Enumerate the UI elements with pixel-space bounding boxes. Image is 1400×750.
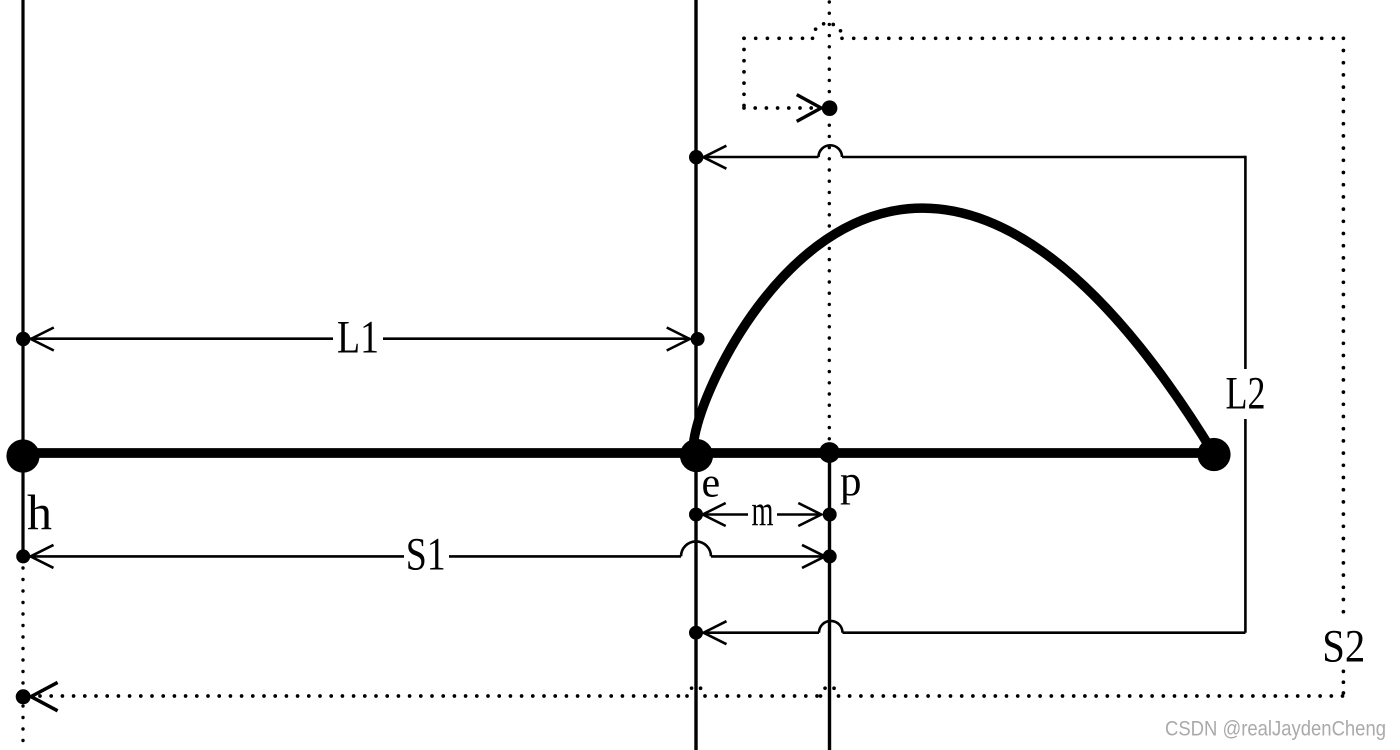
- m label background: [748, 501, 777, 528]
- L2 bracket top arrowhead: [703, 146, 726, 169]
- svg-text:e: e: [702, 461, 721, 507]
- svg-text:m: m: [752, 486, 774, 535]
- S2 dotted hop over dotted vertical: [813, 23, 843, 38]
- left vertical axis line (h) solid part: [21, 0, 24, 556]
- p vertical axis line solid lower part: [828, 450, 831, 750]
- p vertical dotted upper part: [828, 2, 831, 448]
- point p: [819, 442, 840, 463]
- S1 hop over e line: [681, 541, 711, 556]
- point h: [6, 439, 39, 472]
- L2 bracket right vertical line: [1244, 156, 1247, 633]
- svg-text:p: p: [840, 458, 862, 505]
- dimension m line: [703, 513, 821, 516]
- L2 bracket bottom line: [704, 631, 820, 634]
- landing end point: [1197, 438, 1230, 471]
- dimension S1 line: [29, 555, 681, 558]
- L1 left endpoint dot: [16, 332, 30, 346]
- svg-text:S2: S2: [1322, 620, 1365, 672]
- L2 bracket top hop over dotted vertical: [819, 145, 843, 157]
- L1 left arrowhead: [31, 328, 54, 351]
- left vertical axis dotted continuation: [21, 568, 24, 750]
- dimension L1 line: [29, 337, 690, 340]
- trajectory curve from e to landing point: [693, 208, 1214, 454]
- S1 right arrowhead: [802, 545, 825, 568]
- L2 bracket bottom hop over p line: [819, 621, 843, 633]
- S2 bottom dotted hop over e line: [687, 687, 705, 696]
- S1 left endpoint dot: [16, 549, 30, 563]
- svg-text:S1: S1: [406, 529, 446, 581]
- S2 dotted arrow line to start point: [744, 106, 812, 110]
- m right endpoint dot: [823, 508, 837, 522]
- svg-text:CSDN @realJaydenCheng: CSDN @realJaydenCheng: [1165, 718, 1386, 741]
- S2 dotted right vertical line: [1342, 38, 1346, 614]
- S1 label background: [404, 538, 449, 574]
- e vertical axis line: [694, 0, 697, 750]
- S2 label background: [1320, 618, 1367, 668]
- S2 dotted left vertical segment: [742, 38, 746, 108]
- svg-text:L2: L2: [1226, 367, 1266, 419]
- L2 bracket top endpoint dot: [689, 150, 703, 164]
- S2 start point dot: [822, 100, 838, 116]
- L1 right arrowhead: [667, 328, 690, 351]
- m left arrowhead: [703, 503, 726, 526]
- main thick ground line: [23, 448, 1214, 458]
- S2 start arrowhead: [797, 95, 822, 122]
- S2 dotted bottom horizontal line: [40, 694, 687, 698]
- S2 bottom endpoint dot: [16, 689, 31, 704]
- S2 dotted top horizontal line: [744, 36, 813, 40]
- S2 bottom dotted hop over p line: [821, 687, 839, 696]
- L2 bracket top line: [703, 156, 818, 159]
- m right arrowhead: [798, 503, 821, 526]
- L1 label background: [333, 320, 383, 357]
- m left endpoint dot: [689, 508, 703, 522]
- S1 right endpoint dot: [823, 549, 837, 563]
- point e: [680, 439, 713, 472]
- svg-text:h: h: [27, 484, 52, 540]
- L2 bracket bottom endpoint dot: [689, 626, 703, 640]
- svg-text:L1: L1: [337, 312, 379, 364]
- L2 bracket bottom arrowhead: [704, 621, 727, 644]
- S1 left arrowhead: [31, 545, 54, 568]
- L1 right endpoint dot: [691, 332, 705, 346]
- S2 bottom arrowhead: [31, 682, 58, 710]
- L2 label background: [1222, 369, 1269, 419]
